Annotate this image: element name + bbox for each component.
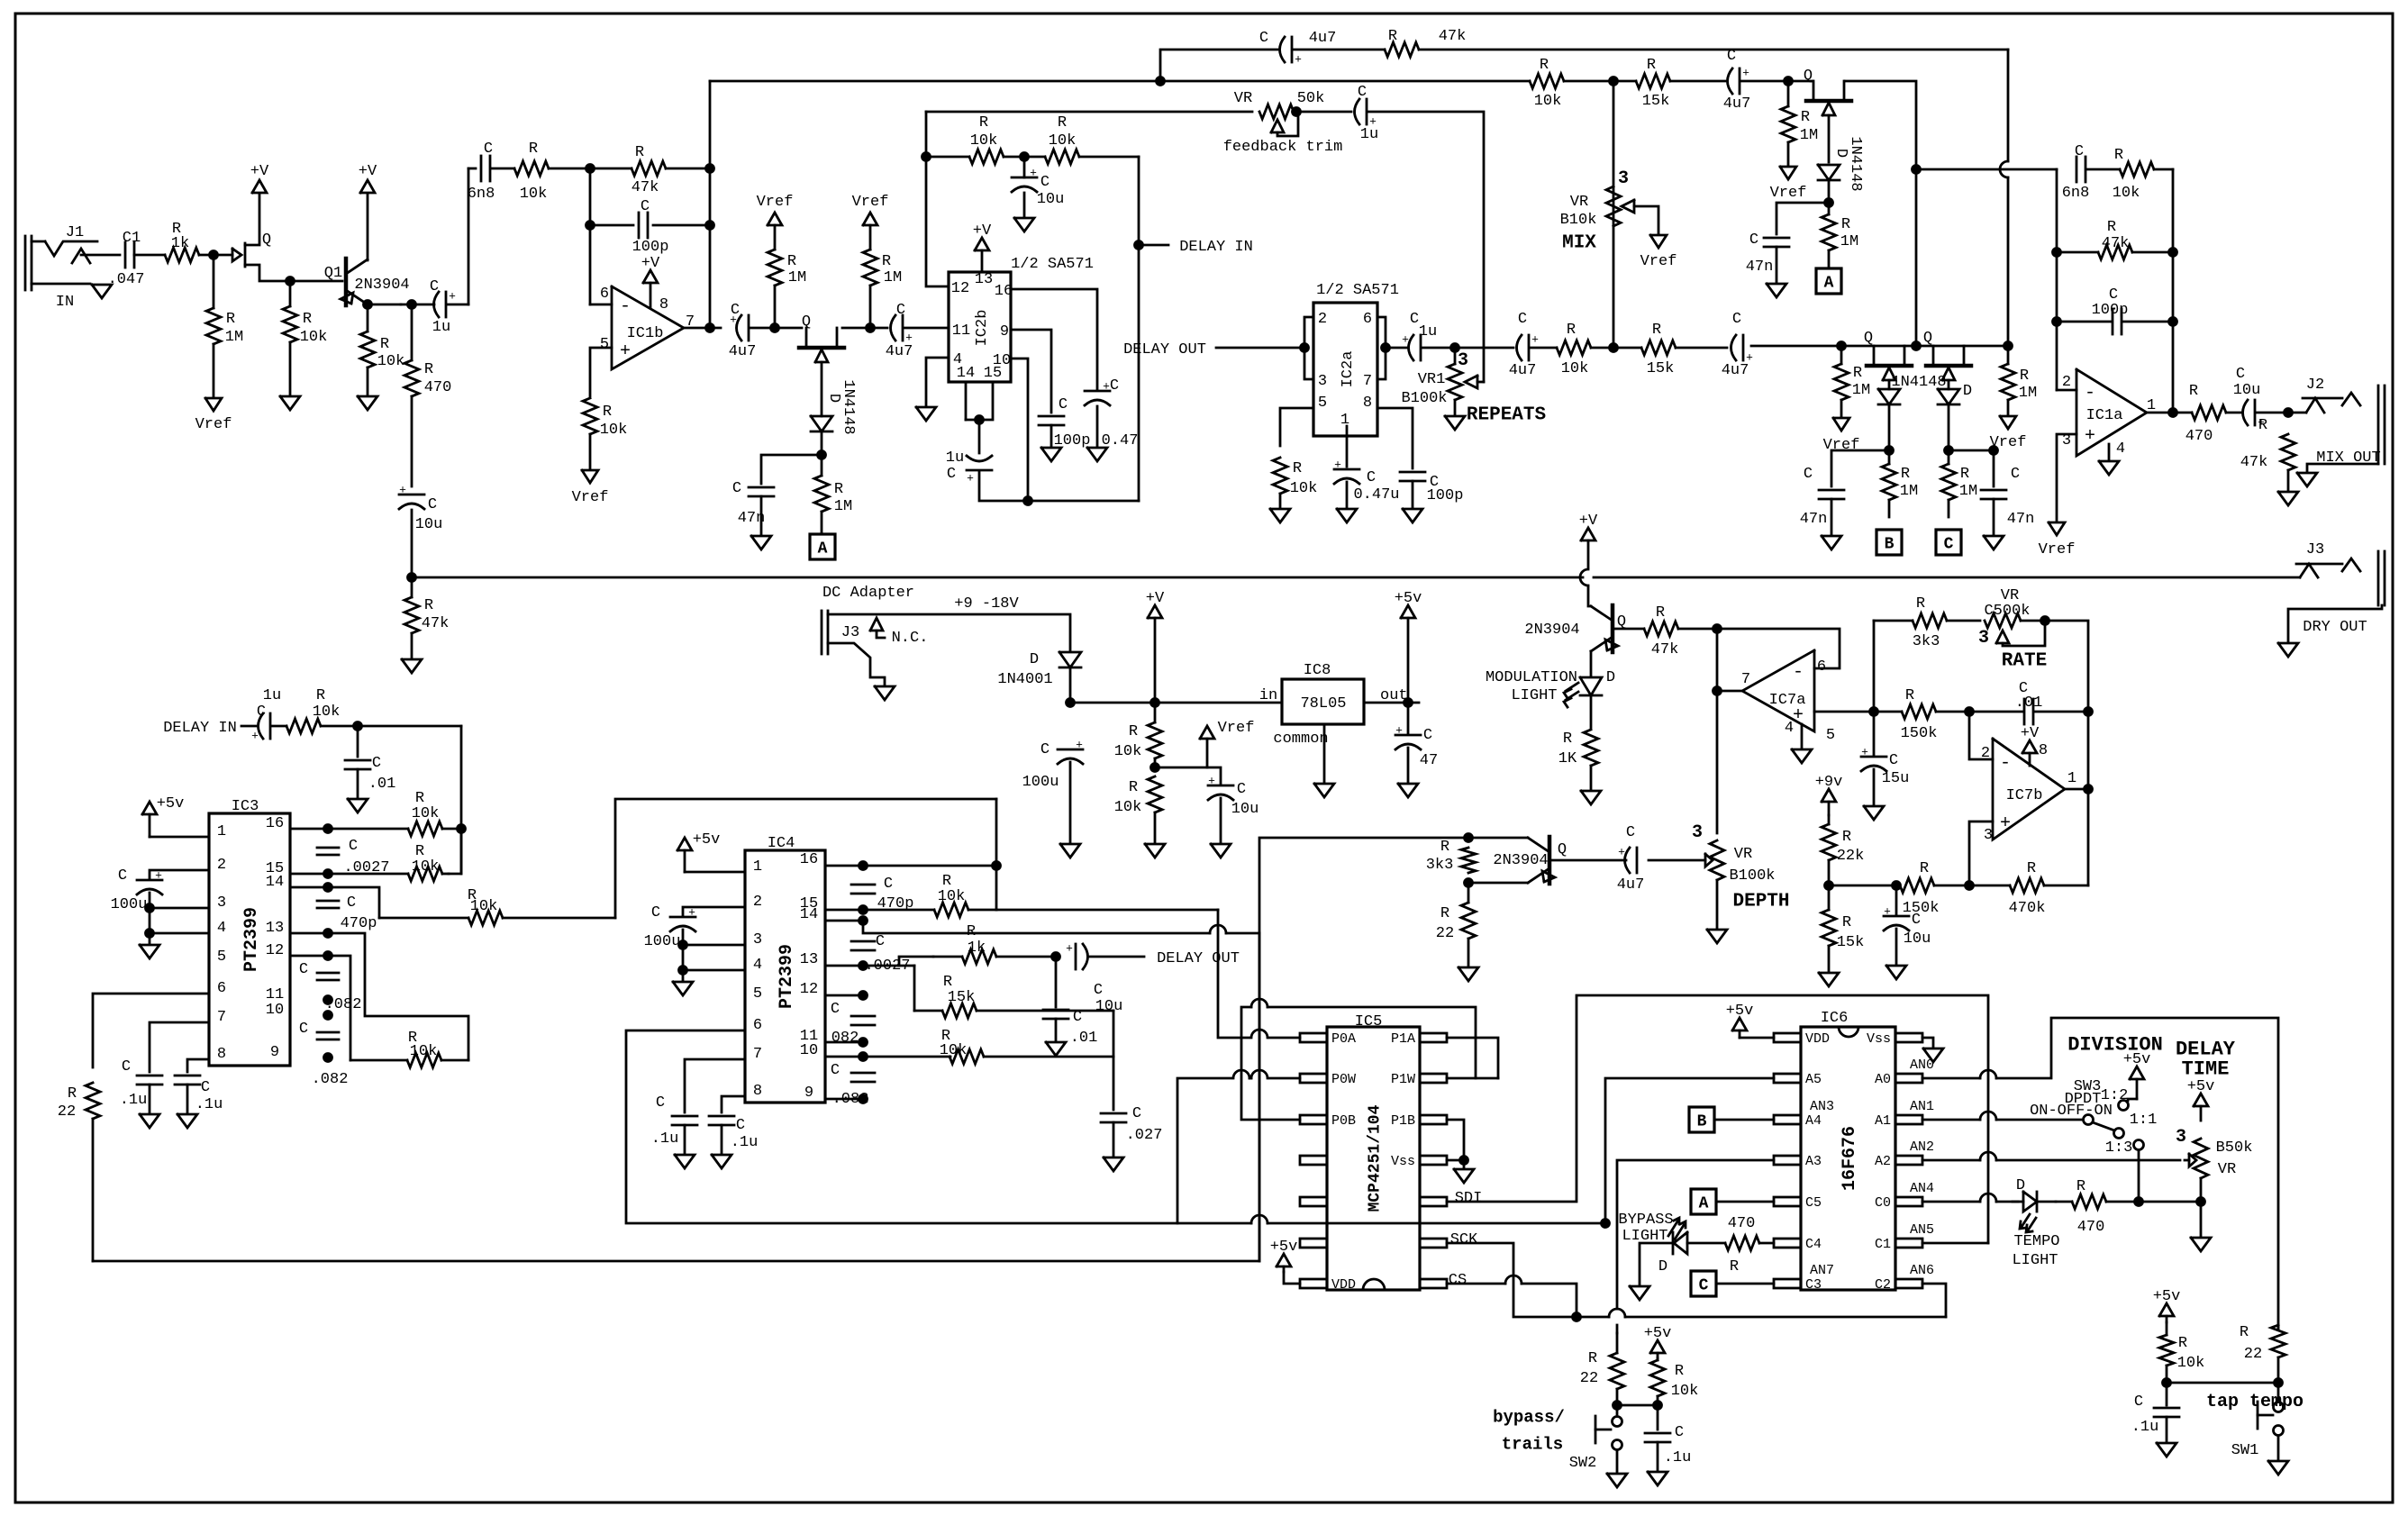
pin stub IC5 left 1380 bbox=[1300, 1239, 1327, 1248]
svg-text:D: D bbox=[1658, 1258, 1667, 1275]
resistor R 22k bbox=[1822, 815, 1836, 885]
svg-text:16F676: 16F676 bbox=[1840, 1126, 1860, 1191]
label A5 bbox=[1805, 1072, 1822, 1087]
ground C10u exp bbox=[1014, 218, 1034, 231]
svg-text:1N4001: 1N4001 bbox=[997, 671, 1052, 688]
label AN3 bbox=[1810, 1099, 1834, 1114]
label 150k bbox=[1901, 725, 1938, 742]
transistor Q 2N3904 depth bbox=[1528, 837, 1555, 884]
svg-text:47k: 47k bbox=[632, 179, 659, 196]
label 100u bbox=[644, 933, 681, 950]
label 3k3 bbox=[1426, 857, 1454, 874]
pin 7 bbox=[686, 313, 695, 331]
svg-text:10k: 10k bbox=[520, 186, 548, 203]
node 082b top bbox=[324, 1012, 332, 1020]
svg-text:SW1: SW1 bbox=[2231, 1442, 2259, 1459]
label AN1 bbox=[1910, 1099, 1934, 1114]
pin 2 IC3 left bbox=[217, 857, 226, 874]
svg-text:22: 22 bbox=[2244, 1346, 2262, 1363]
svg-text:22: 22 bbox=[58, 1103, 76, 1121]
capacitor C 47n e bbox=[1981, 490, 2006, 499]
svg-text:-: - bbox=[2000, 753, 2011, 774]
svg-text:10k: 10k bbox=[938, 888, 966, 905]
svg-text:10k: 10k bbox=[410, 1043, 438, 1060]
svg-text:TEMPO: TEMPO bbox=[2013, 1233, 2059, 1250]
label C bbox=[428, 496, 437, 513]
node A box pic bbox=[1691, 1189, 1716, 1214]
wire IC4 gnd stem bbox=[682, 970, 685, 980]
svg-text:+: + bbox=[620, 341, 631, 362]
label R bbox=[2240, 1324, 2249, 1341]
svg-text:1: 1 bbox=[217, 823, 226, 840]
Vref input R1M bbox=[195, 398, 232, 433]
label IN bbox=[56, 294, 74, 311]
wire C47 gnd bbox=[1407, 748, 1410, 782]
svg-text:Vref: Vref bbox=[852, 194, 889, 211]
wire 47n e stem bbox=[1993, 450, 1995, 486]
label 10k bbox=[600, 422, 628, 439]
ground C47 bbox=[1398, 784, 1418, 797]
label C bbox=[1110, 377, 1119, 395]
svg-text:47n: 47n bbox=[2007, 511, 2035, 528]
label VR bbox=[2001, 587, 2019, 604]
label 50k bbox=[1297, 90, 1325, 107]
wire fb vert left bbox=[589, 168, 592, 304]
wire c01b gnd bbox=[1055, 1019, 1058, 1041]
svg-text:100u: 100u bbox=[111, 896, 148, 913]
output jack J3 dry bbox=[2288, 551, 2385, 641]
label 47n bbox=[2007, 511, 2035, 528]
wire C10u rate gnd bbox=[1895, 929, 1898, 964]
resistor R 10k pin5 bbox=[583, 398, 597, 468]
label P0A bbox=[1331, 1031, 1356, 1047]
svg-text:100p: 100p bbox=[632, 239, 669, 256]
svg-text:P1A: P1A bbox=[1391, 1031, 1415, 1047]
label MCP4251/104 rotated bbox=[1366, 1104, 1384, 1212]
label R bbox=[1440, 839, 1449, 856]
label .082 bbox=[832, 1091, 869, 1108]
pin 6 bbox=[1363, 311, 1372, 328]
ground pin4 bbox=[916, 407, 936, 421]
svg-text:13: 13 bbox=[975, 271, 993, 288]
hop an4 bbox=[1980, 1194, 1996, 1202]
node fb 47k bbox=[2053, 249, 2061, 257]
svg-text:C: C bbox=[122, 1058, 131, 1076]
node input bias bbox=[210, 251, 218, 259]
switch SW3 throw 1:3 bbox=[2134, 1140, 2144, 1150]
wire IC3 pin1 bbox=[150, 836, 209, 839]
label 4u7 bbox=[1309, 30, 1337, 47]
label D bbox=[2016, 1177, 2025, 1194]
svg-text:1u: 1u bbox=[1360, 126, 1378, 143]
wire inv input bbox=[590, 304, 612, 306]
pin 2 bbox=[1981, 745, 1990, 762]
label J1 bbox=[66, 224, 84, 241]
svg-text:15u: 15u bbox=[1882, 770, 1910, 787]
svg-text:R: R bbox=[2178, 1335, 2187, 1352]
pin 11 IC3 right bbox=[266, 986, 284, 1003]
svg-text:RATE: RATE bbox=[2002, 650, 2047, 671]
svg-text:+: + bbox=[449, 290, 456, 304]
svg-text:Q: Q bbox=[1923, 330, 1932, 347]
svg-text:1K: 1K bbox=[1558, 750, 1577, 767]
label C bbox=[947, 466, 956, 483]
wire y188 vert dn bbox=[1915, 169, 1918, 346]
wire dry rail b bbox=[1594, 576, 2300, 579]
svg-text:3: 3 bbox=[1692, 822, 1703, 843]
wire depth emitter bbox=[1468, 882, 1528, 885]
label 2N3904 bbox=[1524, 622, 1579, 639]
svg-text:DELAY OUT: DELAY OUT bbox=[1123, 341, 1206, 359]
svg-text:5: 5 bbox=[600, 336, 609, 353]
capacitor C 1u coupling bbox=[434, 290, 457, 317]
label 470 bbox=[2077, 1219, 2105, 1236]
label R bbox=[1801, 109, 1810, 126]
resistor R 470k bbox=[1969, 878, 2088, 893]
svg-text:DRY OUT: DRY OUT bbox=[2303, 619, 2367, 636]
svg-text:VR: VR bbox=[1570, 194, 1588, 211]
label SCK bbox=[1450, 1231, 1478, 1248]
label P1A bbox=[1391, 1031, 1415, 1047]
label in bbox=[1259, 687, 1277, 704]
label 10k bbox=[940, 1042, 968, 1059]
svg-text:R: R bbox=[1960, 466, 1969, 483]
label IC1b bbox=[627, 325, 664, 342]
svg-text:10k: 10k bbox=[300, 329, 328, 346]
wire pin12 left bbox=[926, 112, 949, 286]
pin 4 bbox=[2116, 440, 2125, 458]
svg-text:VDD: VDD bbox=[1331, 1277, 1356, 1293]
label C bbox=[201, 1079, 210, 1096]
svg-text:Vref: Vref bbox=[572, 489, 609, 506]
svg-text:C: C bbox=[1912, 912, 1921, 929]
+5v division bbox=[2123, 1051, 2151, 1099]
node mod base bbox=[1713, 625, 1722, 633]
svg-text:Q: Q bbox=[802, 313, 811, 331]
svg-text:R: R bbox=[68, 1085, 77, 1103]
Vref up arrow a bbox=[757, 194, 794, 225]
svg-text:R: R bbox=[1388, 28, 1397, 45]
svg-text:1M: 1M bbox=[1840, 233, 1858, 250]
svg-text:5: 5 bbox=[753, 985, 762, 1003]
svg-text:9: 9 bbox=[1000, 323, 1009, 340]
pin 6 IC4 left bbox=[753, 1017, 762, 1034]
resistor R 10k IC4b bbox=[950, 1049, 1113, 1064]
resistor R 10k exp2 bbox=[1024, 150, 1139, 164]
label 082 bbox=[831, 1030, 859, 1047]
pin stub IC6 right A0 bbox=[1895, 1074, 1922, 1083]
label Q bbox=[1558, 841, 1567, 858]
node IC4 082a b bbox=[859, 1039, 868, 1047]
wire 0.47 gnd bbox=[1096, 406, 1099, 446]
label 1M bbox=[788, 269, 806, 286]
svg-text:D: D bbox=[2016, 1177, 2025, 1194]
node A box bbox=[810, 534, 835, 559]
svg-text:R: R bbox=[226, 311, 235, 328]
capacitor C 1u rep bbox=[1402, 333, 1421, 360]
node rate pot bbox=[2041, 617, 2049, 625]
wire 1u to bus bbox=[979, 472, 1139, 501]
label R bbox=[603, 404, 612, 421]
wire IC4 fb vert bbox=[995, 799, 998, 910]
svg-text:C: C bbox=[896, 302, 905, 319]
svg-text:1N4148: 1N4148 bbox=[840, 379, 857, 434]
svg-text:.01: .01 bbox=[1070, 1030, 1098, 1047]
svg-text:4: 4 bbox=[753, 957, 762, 974]
capacitor C .082 IC3b bbox=[317, 1032, 339, 1039]
svg-text:.1u: .1u bbox=[120, 1092, 148, 1109]
svg-text:A5: A5 bbox=[1805, 1072, 1822, 1087]
label 470k bbox=[2009, 900, 2046, 917]
label R bbox=[941, 1028, 950, 1045]
wire AN1 a bbox=[1922, 1119, 1980, 1121]
transistor Q mute JFET d bbox=[1867, 346, 1912, 389]
label AN0 bbox=[1910, 1058, 1934, 1073]
ground C47n e bbox=[1984, 536, 2004, 549]
svg-text:1u: 1u bbox=[1419, 323, 1437, 340]
svg-text:TIME: TIME bbox=[2182, 1058, 2230, 1081]
svg-text:10u: 10u bbox=[1095, 998, 1123, 1015]
label 470 bbox=[424, 379, 452, 396]
ground J3 sleeve bbox=[875, 686, 895, 700]
node t1 bbox=[458, 825, 466, 833]
label +9 -18V bbox=[954, 595, 1019, 613]
wire common gnd bbox=[1323, 724, 1326, 782]
wire IC4 pin7 bbox=[685, 1059, 745, 1112]
capacitor C 100p fb bbox=[639, 213, 648, 238]
svg-text:REPEATS: REPEATS bbox=[1467, 404, 1546, 425]
resistor R 10k div2 bbox=[1148, 776, 1162, 842]
capacitor C 47n c bbox=[1764, 238, 1789, 247]
+5v supply main bbox=[1395, 590, 1422, 703]
resistor R 22 bypass bbox=[1610, 1333, 1624, 1405]
node gate e bbox=[1945, 447, 1953, 455]
label 10k bbox=[1114, 799, 1142, 816]
IC IC2a 1/2 SA571 bbox=[1313, 303, 1377, 436]
ground C47n a bbox=[751, 536, 771, 549]
label R bbox=[415, 843, 424, 860]
ground mod led bbox=[1581, 791, 1601, 804]
svg-text:1/2 SA571: 1/2 SA571 bbox=[1316, 282, 1399, 299]
resistor R 10k div1 bbox=[1148, 703, 1162, 767]
wire cap to vertical bbox=[448, 304, 468, 306]
hop an1 bbox=[1980, 1112, 1996, 1120]
resistor R 1K mod bbox=[1584, 730, 1598, 789]
capacitor C 10u out bbox=[2243, 400, 2266, 430]
wire AN0 a bbox=[1922, 1077, 1980, 1080]
label 1u bbox=[1419, 323, 1437, 340]
label C bbox=[1732, 311, 1741, 328]
svg-text:+: + bbox=[1334, 458, 1341, 472]
label R bbox=[1388, 28, 1397, 45]
ground bypass led bbox=[1630, 1286, 1649, 1300]
svg-text:R: R bbox=[603, 404, 612, 421]
label 10k bbox=[1561, 360, 1589, 377]
pin stub IC5 left VDD bbox=[1300, 1279, 1327, 1288]
wire IC4 p13 dn bbox=[913, 966, 916, 1011]
wire C10u rate stem bbox=[1895, 885, 1898, 914]
label 100u bbox=[1022, 774, 1059, 791]
svg-text:C: C bbox=[1518, 311, 1527, 328]
pin 14 IC4 right bbox=[800, 906, 818, 923]
svg-text:14: 14 bbox=[266, 874, 284, 891]
svg-text:2: 2 bbox=[1318, 311, 1327, 328]
pin stub IC6 right Vss bbox=[1895, 1033, 1922, 1042]
label VDD bbox=[1805, 1031, 1830, 1047]
label IC4 bbox=[768, 835, 795, 852]
label 47n bbox=[1746, 259, 1774, 276]
node IC3 p3 bbox=[146, 904, 154, 912]
svg-text:R: R bbox=[1652, 322, 1661, 339]
svg-text:2N3904: 2N3904 bbox=[1493, 852, 1548, 869]
+V supply IC1b bbox=[641, 255, 660, 283]
node jfet cross bbox=[1913, 342, 1921, 350]
ground 78L05 bbox=[1314, 784, 1334, 797]
svg-text:1:3: 1:3 bbox=[2105, 1139, 2133, 1157]
svg-text:4: 4 bbox=[1785, 720, 1794, 737]
svg-text:R: R bbox=[2027, 860, 2036, 877]
wire IC4 p14 bbox=[825, 920, 863, 922]
svg-text:IC1b: IC1b bbox=[627, 325, 664, 342]
Vref f bbox=[1990, 416, 2027, 451]
pin 3 bbox=[1318, 373, 1327, 390]
pin stub IC6 left C5 bbox=[1774, 1197, 1801, 1206]
capacitor C .082 IC4b bbox=[851, 1073, 875, 1082]
IC IC3 PT2399 bbox=[209, 813, 290, 1066]
label R bbox=[1853, 365, 1862, 382]
svg-text:R: R bbox=[787, 253, 796, 270]
node a5 join bbox=[1602, 1220, 1610, 1228]
capacitor C .0027 IC4 bbox=[851, 941, 875, 950]
N.C. pin arrow bbox=[870, 618, 885, 638]
label 1M bbox=[1959, 483, 1977, 500]
svg-text:1M: 1M bbox=[1959, 483, 1977, 500]
wire depth gnd bbox=[1716, 880, 1719, 928]
label VR bbox=[1234, 90, 1252, 107]
label IC1a bbox=[2086, 407, 2123, 424]
resistor R 47k out bbox=[2281, 434, 2295, 490]
svg-text:10k: 10k bbox=[1534, 93, 1562, 110]
label A1 bbox=[1875, 1113, 1891, 1129]
label C bbox=[831, 1062, 840, 1079]
svg-text:+: + bbox=[251, 730, 259, 743]
svg-text:R: R bbox=[1853, 365, 1862, 382]
wire pin8 stem bbox=[2029, 753, 2031, 766]
svg-text:C: C bbox=[372, 755, 381, 772]
label 10k bbox=[938, 888, 966, 905]
label C bbox=[372, 755, 381, 772]
svg-text:R: R bbox=[635, 144, 644, 161]
label Q bbox=[1617, 613, 1626, 631]
svg-text:10k: 10k bbox=[412, 805, 440, 822]
svg-text:1M: 1M bbox=[788, 269, 806, 286]
wire mix rail bbox=[710, 80, 1530, 83]
label .0027 bbox=[864, 958, 910, 975]
label R bbox=[979, 114, 988, 132]
wire t2 up bbox=[449, 829, 461, 874]
svg-text:1u: 1u bbox=[432, 319, 450, 336]
svg-text:Q1: Q1 bbox=[324, 265, 342, 282]
node +5v bbox=[1404, 699, 1413, 707]
switch SW2 contact a bbox=[1613, 1417, 1622, 1427]
op-amp IC7a bbox=[1742, 650, 1814, 731]
ground C.1u bypass bbox=[1648, 1472, 1667, 1485]
resistor R 22 IC3 bbox=[86, 1083, 100, 1261]
wire C10u stem bbox=[1023, 157, 1026, 177]
svg-text:+: + bbox=[1030, 167, 1037, 180]
svg-text:DELAY IN: DELAY IN bbox=[1179, 239, 1253, 256]
svg-text:082: 082 bbox=[831, 1030, 859, 1047]
label 1M bbox=[225, 329, 243, 346]
svg-text:+: + bbox=[1793, 705, 1804, 726]
node fbr 357 bbox=[2169, 318, 2177, 326]
label R bbox=[408, 1030, 417, 1047]
resistor R 1M mute e bbox=[1941, 450, 1956, 517]
capacitor C 470p IC4 bbox=[851, 885, 875, 894]
pin stub IC5 left P0A bbox=[1300, 1033, 1327, 1042]
label IC2a rotated bbox=[1340, 351, 1357, 388]
svg-text:3: 3 bbox=[1318, 373, 1327, 390]
ground out 47k bbox=[2278, 492, 2298, 505]
svg-text:0.47u: 0.47u bbox=[1353, 486, 1399, 504]
label 1M bbox=[1852, 382, 1870, 399]
label R bbox=[1058, 114, 1067, 132]
label Q bbox=[1864, 330, 1873, 347]
label C bbox=[2109, 286, 2118, 304]
svg-text:R: R bbox=[1563, 731, 1572, 748]
label DELAY OUT lower bbox=[1157, 950, 1240, 967]
svg-text:1: 1 bbox=[2067, 770, 2076, 787]
pin 16 bbox=[995, 283, 1013, 300]
svg-text:.082: .082 bbox=[312, 1071, 349, 1088]
svg-text:C: C bbox=[1132, 1105, 1141, 1122]
svg-text:IC7b: IC7b bbox=[2006, 787, 2043, 804]
wire A3 bbox=[1617, 1160, 1774, 1309]
svg-text:10k: 10k bbox=[970, 132, 998, 150]
ground c01 bbox=[348, 799, 368, 812]
pin stub IC6 left VDD bbox=[1774, 1033, 1801, 1042]
wire p14 jog bbox=[290, 887, 379, 918]
wire pin15 stub bbox=[966, 382, 993, 420]
resistor R 47k dry load bbox=[404, 577, 419, 658]
pin stub IC5 left P0W bbox=[1300, 1074, 1327, 1083]
label N.C. bbox=[892, 630, 929, 647]
label J2 bbox=[2306, 377, 2324, 394]
pot MIX wiper bbox=[1622, 200, 1658, 233]
wire pot to gnd bbox=[1454, 400, 1457, 414]
wire P0A b bbox=[1218, 910, 1249, 1038]
label 100p bbox=[1054, 432, 1091, 449]
node R1M-c bbox=[1785, 77, 1793, 86]
svg-text:+: + bbox=[1208, 775, 1215, 788]
pin 13 bbox=[975, 271, 993, 288]
wire gate d bbox=[1888, 404, 1891, 450]
wire delay in stub bbox=[1139, 244, 1168, 247]
hop cs over sck bbox=[1505, 1275, 1522, 1284]
switch SW3 lever bbox=[2093, 1122, 2114, 1130]
node plusV tee bbox=[1151, 699, 1159, 707]
svg-text:C: C bbox=[1094, 982, 1103, 999]
diode D 1N4001 bbox=[1059, 652, 1081, 667]
wire mix pot vert bbox=[1613, 81, 1615, 348]
wire IC4 p13 bbox=[825, 965, 914, 967]
label R bbox=[468, 887, 477, 904]
label B100k bbox=[1729, 867, 1775, 885]
svg-text:78L05: 78L05 bbox=[1300, 695, 1346, 713]
label AN7 bbox=[1810, 1263, 1834, 1278]
node R1M-a bbox=[771, 324, 779, 332]
svg-text:.027: .027 bbox=[1126, 1127, 1163, 1144]
